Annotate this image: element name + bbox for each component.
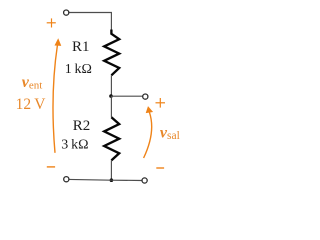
svg-text:R1: R1	[72, 39, 90, 55]
wire node A to R2	[110, 96, 112, 117]
terminal node output	[143, 94, 148, 99]
arrow v_ent	[53, 38, 61, 153]
plus sign source	[47, 18, 56, 27]
svg-text:3 kΩ: 3 kΩ	[61, 138, 88, 153]
wire R1 to node A	[110, 75, 112, 96]
wire bottom right	[111, 179, 141, 181]
svg-text:vent: vent	[22, 74, 43, 92]
minus sign source	[47, 166, 55, 168]
wire node A to output terminal	[111, 95, 142, 97]
svg-text:1 kΩ: 1 kΩ	[65, 62, 92, 77]
wire top	[69, 13, 112, 30]
terminal node top-left	[64, 10, 69, 15]
terminal node bottom-right	[142, 178, 147, 183]
svg-text:12 V: 12 V	[16, 96, 47, 113]
junction node B	[110, 178, 114, 182]
wire R2 to node B	[110, 160, 112, 180]
wire bottom left	[69, 178, 112, 181]
junction node A	[109, 94, 113, 98]
minus sign output	[156, 167, 164, 169]
svg-text:R2: R2	[73, 118, 91, 134]
svg-text:vsal: vsal	[160, 124, 180, 142]
terminal node bottom-left	[64, 177, 69, 182]
arrow v_sal	[144, 106, 154, 158]
resistor R2	[104, 117, 119, 160]
resistor R1	[104, 30, 119, 76]
plus sign output	[156, 98, 166, 108]
